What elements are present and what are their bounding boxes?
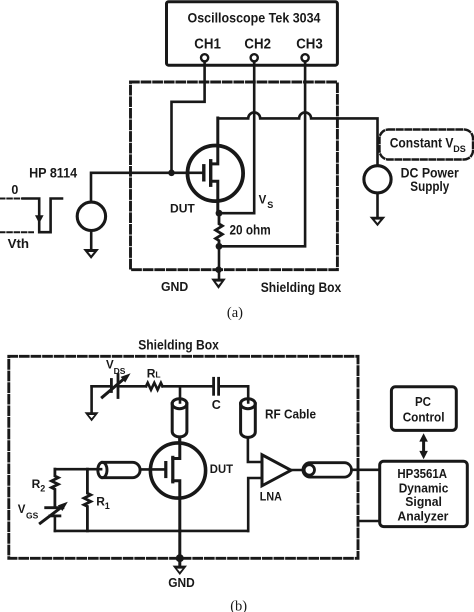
DUT (b) drain lead xyxy=(173,437,180,458)
RF cable coax body xyxy=(241,404,256,438)
DC power supply circle xyxy=(364,166,391,193)
svg-text:2: 2 xyxy=(40,483,45,493)
svg-text:RF Cable: RF Cable xyxy=(265,407,316,422)
output coax connector circle xyxy=(304,465,314,475)
ground GND (b) xyxy=(173,566,187,575)
resistor R2 xyxy=(52,469,59,507)
svg-text:(b): (b) xyxy=(230,599,247,612)
RF cable coax top ellipse xyxy=(241,399,256,409)
svg-text:Supply: Supply xyxy=(410,179,449,194)
wire LNA lower input to rail xyxy=(248,478,262,531)
wire CH2 to Vs node xyxy=(222,62,254,214)
bottom rail wire xyxy=(55,530,248,533)
oscilloscope box Tek 3034 xyxy=(167,2,338,65)
terminal CH2 xyxy=(251,54,258,61)
node gate junction xyxy=(168,170,175,177)
wire VDS left segment xyxy=(92,385,112,388)
svg-text:L: L xyxy=(155,370,160,380)
wire HP8114 source to gate line xyxy=(91,173,203,202)
svg-text:CH2: CH2 xyxy=(244,36,271,52)
transistor DUT (b) circle xyxy=(150,443,205,498)
svg-text:CH3: CH3 xyxy=(296,36,323,52)
resistor R1 xyxy=(84,469,91,531)
shielding box (b) dashed xyxy=(9,356,358,558)
resistor 20 ohm xyxy=(216,213,223,246)
terminal CH3 xyxy=(302,54,309,61)
svg-text:Vth: Vth xyxy=(8,236,30,251)
svg-text:(a): (a) xyxy=(227,305,243,321)
terminal CH1 xyxy=(201,54,208,61)
wire RF cable to LNA input xyxy=(248,437,262,462)
svg-text:V: V xyxy=(259,194,267,206)
battery VGS variable arrow xyxy=(40,508,60,523)
pulse falling edge arrowhead xyxy=(35,215,44,223)
ground HP8114 xyxy=(83,249,99,259)
node on shielding box wall xyxy=(215,266,222,273)
svg-text:GND: GND xyxy=(168,575,195,590)
svg-text:Oscilloscope Tek 3034: Oscilloscope Tek 3034 xyxy=(188,9,321,25)
svg-text:Control: Control xyxy=(403,409,445,424)
svg-text:LNA: LNA xyxy=(260,492,282,504)
wire DUT source to GND (b) xyxy=(178,531,181,567)
DUT (a) drain lead xyxy=(211,118,218,164)
svg-text:0: 0 xyxy=(11,183,18,197)
constant VDS dashed box xyxy=(380,130,474,160)
DUT (a) gate bar xyxy=(202,166,205,180)
svg-text:GS: GS xyxy=(26,510,39,520)
svg-text:HP3561A: HP3561A xyxy=(397,466,447,481)
node resistor bottom xyxy=(216,243,223,250)
dashed zero level line xyxy=(0,198,23,200)
output coax capsule xyxy=(303,463,352,477)
gate coax capsule xyxy=(102,462,140,477)
wire battery to RL xyxy=(118,385,146,388)
double arrow PC to analyzer xyxy=(422,440,425,453)
battery VDS variable arrow xyxy=(102,380,123,398)
drain wire with hops to DC supply xyxy=(218,112,378,165)
battery VGS long bar xyxy=(46,506,63,509)
DUT (b) source lead xyxy=(173,481,180,531)
svg-text:Analyzer: Analyzer xyxy=(397,509,448,524)
wire CH3 to resistor bottom xyxy=(222,62,305,247)
ground DC supply xyxy=(370,217,386,227)
DUT (a) source lead xyxy=(211,181,218,213)
coax cable 1 top ellipse xyxy=(172,399,187,409)
svg-text:DS: DS xyxy=(114,366,126,376)
wire VDS down to ground xyxy=(90,386,93,413)
svg-text:1: 1 xyxy=(105,501,110,511)
ground VDS xyxy=(85,412,99,421)
wire LNA output xyxy=(291,469,307,472)
svg-text:GND: GND xyxy=(161,279,188,294)
svg-text:Signal: Signal xyxy=(405,494,442,509)
svg-text:DUT: DUT xyxy=(210,464,233,476)
wire gate coax to gate xyxy=(140,468,165,471)
gate coax connector circle xyxy=(98,462,107,477)
svg-text:V: V xyxy=(18,504,26,516)
DUT (b) channel bar xyxy=(171,457,174,481)
wire coax1 to DUT drain xyxy=(178,437,181,443)
svg-text:20 ohm: 20 ohm xyxy=(230,222,271,237)
wire HP8114 source to ground xyxy=(90,231,93,251)
svg-text:DUT: DUT xyxy=(170,203,195,215)
coax cable 1 body xyxy=(172,404,187,437)
wire RL to capacitor xyxy=(163,385,213,388)
wire junction down to coax 1 xyxy=(179,386,182,405)
svg-text:Shielding Box: Shielding Box xyxy=(261,279,342,295)
wire VGS to rail xyxy=(54,516,57,531)
amplifier LNA xyxy=(262,455,291,486)
node on shielding box bottom wall xyxy=(176,554,184,562)
wire DC supply to ground xyxy=(376,193,379,218)
PC control box xyxy=(391,387,456,431)
svg-text:CH1: CH1 xyxy=(194,36,221,52)
svg-text:HP 8114: HP 8114 xyxy=(29,166,77,181)
svg-text:Constant V: Constant V xyxy=(390,135,454,150)
svg-text:DS: DS xyxy=(453,144,466,154)
DUT (b) gate bar xyxy=(164,463,167,477)
wire analyzer ground to shielding box xyxy=(358,520,380,523)
pulse source HP8114 circle xyxy=(77,202,105,230)
battery VDS long bar xyxy=(117,375,120,398)
shielding box (a) dashed xyxy=(131,82,338,270)
wire capacitor to RF cable xyxy=(220,386,248,405)
transistor DUT (a) circle xyxy=(188,146,244,202)
node Vs xyxy=(216,210,223,217)
wire resistor to GND xyxy=(218,246,221,279)
svg-text:C: C xyxy=(212,398,221,412)
dashed Vth level line xyxy=(0,231,33,233)
wire gate top rail xyxy=(55,468,103,471)
DUT (a) channel bar xyxy=(209,161,212,185)
battery VDS short bar xyxy=(110,380,113,392)
analyzer HP3561A box xyxy=(380,461,468,526)
svg-text:PC: PC xyxy=(415,394,431,409)
wire output coax to analyzer xyxy=(352,468,380,471)
svg-text:S: S xyxy=(267,200,273,210)
svg-text:Shielding Box: Shielding Box xyxy=(138,336,219,352)
pulse waveform xyxy=(23,199,62,233)
battery VGS short bar xyxy=(50,515,60,518)
resistor RL xyxy=(146,383,163,390)
ground GND (a) xyxy=(211,279,226,289)
wire CH1 to gate junction xyxy=(172,62,205,173)
capacitor C plates xyxy=(212,378,215,394)
